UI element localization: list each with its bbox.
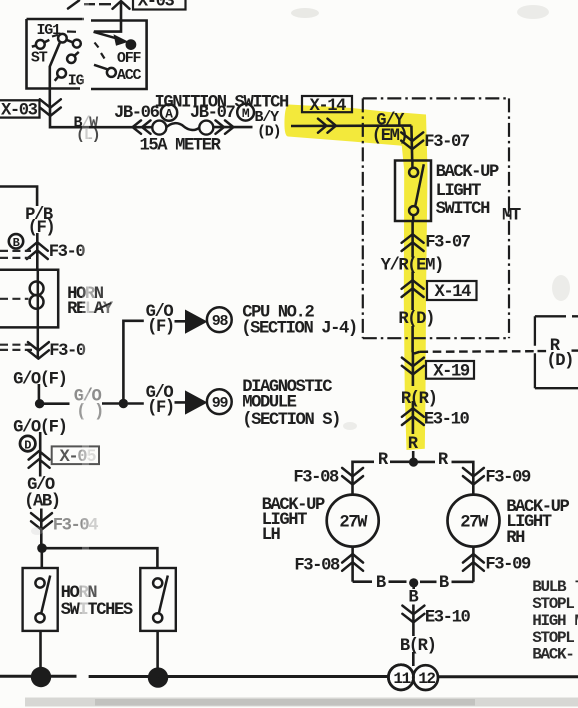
svg-text:(EM): (EM) xyxy=(372,127,408,146)
svg-text:98: 98 xyxy=(212,313,229,330)
svg-text:RH: RH xyxy=(506,529,525,548)
wire G/O (AB) xyxy=(40,509,43,549)
wire B from right lamp to junction xyxy=(420,580,473,583)
connector box X-03 (top, cut off) xyxy=(133,0,186,12)
bottom scan shadow band xyxy=(25,698,578,707)
junction node R xyxy=(409,458,418,467)
label B/Y (D) xyxy=(255,109,281,141)
MT transmission enclosure dash-dot border xyxy=(363,98,510,338)
label G/Y xyxy=(376,112,405,131)
svg-text:ST: ST xyxy=(31,49,48,66)
svg-text:(F): (F) xyxy=(28,219,55,238)
ignition switch box xyxy=(27,19,147,89)
wire R to left lamp branch xyxy=(353,462,410,495)
svg-text:G/O(F): G/O(F) xyxy=(13,370,66,389)
label (AB) xyxy=(24,492,60,511)
svg-text:F3-09: F3-09 xyxy=(485,468,531,487)
wire G/Y corner turning down xyxy=(410,126,413,161)
connector chevron F3-08 (top) xyxy=(293,468,363,487)
svg-text:B: B xyxy=(13,236,20,250)
connector chevron F3-0 (faded) xyxy=(31,513,98,535)
svg-text:JB-07: JB-07 xyxy=(190,104,236,123)
label R (left branch) xyxy=(378,451,389,470)
svg-text:MODULE: MODULE xyxy=(242,393,296,412)
label B/W (L) xyxy=(74,114,100,143)
wire B/Y into X-14 with chevrons xyxy=(291,119,411,133)
svg-text:BACK-: BACK- xyxy=(532,645,573,663)
svg-text:RELAY: RELAY xyxy=(67,300,114,319)
label B (right) xyxy=(439,574,449,593)
wire horn switch 2 to ground xyxy=(156,631,159,678)
label HORN RELAY xyxy=(67,285,114,319)
label (EM) xyxy=(372,127,408,146)
horn switch 2 box xyxy=(140,568,176,631)
svg-text:(F): (F) xyxy=(147,318,174,337)
wire Y/R segment xyxy=(411,272,414,311)
svg-text:E3-10: E3-10 xyxy=(424,410,470,429)
svg-text:OFF: OFF xyxy=(117,50,142,67)
wire out of left lamp xyxy=(351,547,354,582)
terminal A xyxy=(161,104,177,121)
label R (right branch) xyxy=(438,451,449,470)
svg-text:X-03: X-03 xyxy=(138,0,175,12)
label R(R) xyxy=(401,390,437,409)
label G/O xyxy=(27,476,55,495)
svg-text:F3-0: F3-0 xyxy=(49,342,86,361)
connector chevron F3-09 (bottom) xyxy=(463,554,531,574)
wire to diagnostic arrow xyxy=(128,402,186,403)
junction node to modules xyxy=(119,399,128,408)
svg-text:R(D): R(D) xyxy=(398,310,434,329)
svg-text:(D): (D) xyxy=(257,123,280,140)
back-up light switch contacts xyxy=(409,161,424,221)
node D ring terminal xyxy=(20,436,35,452)
wire into X-19 xyxy=(412,352,415,386)
connector chevron F3-0 (below horn relay) xyxy=(28,342,86,361)
label DIAGNOSTIC MODULE (SECTION S) xyxy=(242,378,340,430)
connector chevron E3-10 (bottom) xyxy=(402,606,470,628)
svg-text:27W: 27W xyxy=(339,513,368,532)
highlighter trace horizontal band over B/Y wire to X-14 xyxy=(284,105,423,148)
terminal IG1 xyxy=(58,34,81,48)
dashed wire at top edge xyxy=(84,3,111,5)
connector chevron X-14 xyxy=(402,280,424,297)
svg-text:(F): (F) xyxy=(147,399,174,418)
label G/O (F) (diagnostic) xyxy=(146,384,174,418)
horn relay coil xyxy=(30,270,44,358)
junction node horn switches xyxy=(37,543,47,553)
ground terminal 11 xyxy=(388,665,413,690)
label Y/R(EM) xyxy=(381,256,443,275)
wire B(R) segment xyxy=(412,605,415,637)
label MT xyxy=(502,207,521,226)
connector box X-0 (faded) xyxy=(52,446,99,467)
label BACK-UP LIGHT RH xyxy=(506,498,569,548)
svg-text:LIGHT: LIGHT xyxy=(436,182,482,201)
connector chevron F3-07 (top) xyxy=(401,132,470,151)
svg-text:SWITCHES: SWITCHES xyxy=(61,601,133,620)
svg-text:X-14: X-14 xyxy=(310,97,347,116)
label CPU NO.2 (SECTION J-4) xyxy=(241,303,357,338)
label IG1 xyxy=(37,22,62,39)
terminal M xyxy=(237,104,254,121)
connector chevron E3-10 xyxy=(402,408,470,429)
highlighter trace vertical strip down main wire xyxy=(401,113,428,451)
label G/O (F) (CPU) xyxy=(146,303,174,337)
junction node G/O xyxy=(35,399,44,408)
ground terminal 12 xyxy=(388,665,438,690)
arrow to CPU xyxy=(185,310,208,334)
terminal 98 xyxy=(207,307,232,332)
scan seam xyxy=(82,0,89,708)
svg-text:HIGH: HIGH xyxy=(532,612,566,630)
terminal IG xyxy=(55,69,85,90)
label JB-06 xyxy=(114,104,160,123)
arrow up to connector X-03 (top) xyxy=(113,1,130,9)
joint box at right edge (dash-dot) xyxy=(535,316,578,388)
svg-text:JB-06: JB-06 xyxy=(114,104,160,123)
svg-text:F3-04: F3-04 xyxy=(53,516,99,535)
ground junction dot (horn switch 2) xyxy=(148,667,168,687)
svg-text:A: A xyxy=(165,106,173,121)
svg-text:BULB: BULB xyxy=(532,578,567,596)
svg-text:B: B xyxy=(439,574,449,593)
svg-text:STOPL: STOPL xyxy=(532,629,574,647)
terminal 99 xyxy=(207,389,232,414)
svg-text:F3-09: F3-09 xyxy=(485,555,531,574)
svg-text:F3-07: F3-07 xyxy=(425,233,471,252)
ground junction dot (horn switch 1) xyxy=(31,667,51,687)
wire P/B from top-left xyxy=(0,187,37,207)
svg-text:MT: MT xyxy=(502,207,521,226)
dashed line into relay coil xyxy=(0,298,29,300)
connector box X-14 (on wire) xyxy=(427,281,477,302)
connector chevron X-0 xyxy=(29,451,50,468)
label B (left) xyxy=(376,574,386,593)
wire fragment chevron at top edge xyxy=(68,1,79,9)
label R (highlighted) xyxy=(408,435,419,454)
connector chevron F3-08 (bottom) xyxy=(294,554,363,575)
wire B from left lamp to junction xyxy=(353,580,407,583)
svg-text:X-03: X-03 xyxy=(1,102,38,121)
back-up light switch box xyxy=(395,161,431,222)
fuse 15A METER xyxy=(140,121,222,156)
wire into CPU arrow xyxy=(175,320,187,323)
node B ring terminal xyxy=(9,234,23,250)
svg-text:X-05: X-05 xyxy=(60,448,97,467)
terminal IG2 xyxy=(67,52,79,63)
wire G/O to CPU/diagnostic branch xyxy=(40,402,124,405)
svg-text:11: 11 xyxy=(393,670,410,688)
svg-text:F3-0: F3-0 xyxy=(49,243,86,262)
legend text column (cut at right edge) xyxy=(532,578,578,664)
label HORN SWITCHES xyxy=(61,584,133,620)
terminal ACC xyxy=(94,65,142,84)
connector chevron X-19 xyxy=(402,358,424,375)
label R(D) xyxy=(398,310,434,329)
junction node B xyxy=(409,578,418,587)
svg-text:X-19: X-19 xyxy=(433,362,470,381)
connector box X-14 (left) xyxy=(302,96,352,116)
svg-text:SWITCH: SWITCH xyxy=(436,200,490,219)
svg-text:(SECTION J-4): (SECTION J-4) xyxy=(241,319,357,338)
wire to ground terminals xyxy=(412,652,415,666)
wire from X-03 top down into ignition switch xyxy=(94,3,121,32)
svg-text:12: 12 xyxy=(418,670,435,688)
label IGNITION SWITCH xyxy=(155,93,290,112)
dashed enclosure border fragments (left edge, below relay) xyxy=(0,345,32,350)
svg-text:E3-10: E3-10 xyxy=(425,608,471,627)
dashed branch wire to joint box xyxy=(414,351,578,354)
horn switch 1 contacts xyxy=(35,576,50,623)
svg-text:Y/R(EM): Y/R(EM) xyxy=(381,256,443,275)
wire B down from junction xyxy=(412,583,415,589)
back-up light RH lamp 27W xyxy=(448,495,500,547)
wire to horn switch 2 xyxy=(42,548,157,568)
connector box X-19 xyxy=(426,361,474,381)
wire G/O down xyxy=(38,384,41,404)
horn switch 2 contacts xyxy=(153,576,168,623)
svg-text:B(R): B(R) xyxy=(400,637,436,656)
label G/O ( ) faded xyxy=(74,387,103,422)
svg-text:27W: 27W xyxy=(460,513,489,532)
connector chevron X-03 (below ignition switch) xyxy=(40,99,61,116)
wire into horn relay xyxy=(36,233,39,270)
label P/B (F) xyxy=(25,206,54,238)
wire R(D) segment xyxy=(411,326,414,352)
label B (below junction) xyxy=(408,588,418,607)
terminal ST xyxy=(31,40,49,66)
svg-text:M: M xyxy=(575,612,578,630)
svg-text:15A METER: 15A METER xyxy=(140,136,222,155)
label B(R) xyxy=(400,637,436,656)
svg-text:(AB): (AB) xyxy=(24,492,60,511)
wire up to CPU branch xyxy=(123,321,143,404)
connector chevron F3-09 (top) xyxy=(463,468,531,487)
wire from switch down xyxy=(411,221,414,258)
ground bus line right segment xyxy=(89,675,578,678)
wire horn switch 1 to ground xyxy=(39,631,42,677)
wire R segment to junction xyxy=(412,401,415,462)
switch rotation dashed arc xyxy=(52,32,105,59)
svg-text:BACK-UP: BACK-UP xyxy=(436,163,499,182)
wire B/W from ignition to fuse xyxy=(50,107,253,127)
label BACK-UP LIGHT SWITCH xyxy=(436,163,499,219)
connector box X-03 (left edge) xyxy=(0,100,40,120)
wire R to right lamp branch xyxy=(418,462,473,495)
arrow to diagnostic module xyxy=(185,390,208,414)
wire down to connector D xyxy=(39,432,42,477)
svg-text:99: 99 xyxy=(212,395,229,412)
connector chevron F3-07 (bottom) xyxy=(402,233,471,252)
svg-text:F3-08: F3-08 xyxy=(293,468,339,487)
svg-text:LH: LH xyxy=(262,526,281,545)
ground bus line left segment xyxy=(0,675,77,678)
label G/O(F) (upper) xyxy=(13,370,66,389)
horn relay box xyxy=(0,270,58,328)
svg-text:ACC: ACC xyxy=(117,67,142,84)
svg-text:(SECTION S): (SECTION S) xyxy=(242,411,340,430)
dashed enclosure border fragments (left edge, above relay) xyxy=(0,251,31,258)
scan smudges xyxy=(31,5,570,535)
label G/O(F) (lower) xyxy=(13,418,66,437)
wire out of right lamp xyxy=(472,547,475,582)
switch blade from IG1 down to exit wire xyxy=(50,42,60,108)
connector chevron F3-0 (above horn relay) xyxy=(27,242,86,262)
svg-text:STOPL: STOPL xyxy=(532,595,574,613)
horn switch 1 box xyxy=(23,568,58,631)
wire to horn switch 1 xyxy=(40,548,43,568)
label R (D) in joint box xyxy=(546,337,573,371)
svg-text:(D): (D) xyxy=(546,352,573,371)
label JB-07 xyxy=(190,104,236,123)
svg-text:B: B xyxy=(376,574,386,593)
svg-text:F3-07: F3-07 xyxy=(424,133,470,152)
label BACK-UP LIGHT LH xyxy=(262,496,325,545)
svg-text:M: M xyxy=(242,106,250,121)
svg-text:( ): ( ) xyxy=(76,403,103,422)
svg-text:D: D xyxy=(24,438,31,452)
connector chevrons out of junction block xyxy=(216,120,234,133)
svg-text:F3-08: F3-08 xyxy=(294,556,340,575)
connector chevrons into junction block xyxy=(133,120,151,133)
OFF position arm with ball xyxy=(94,32,142,67)
svg-text:X-14: X-14 xyxy=(435,283,472,302)
back-up light LH lamp 27W xyxy=(327,495,379,547)
svg-text:R(R): R(R) xyxy=(401,390,437,409)
